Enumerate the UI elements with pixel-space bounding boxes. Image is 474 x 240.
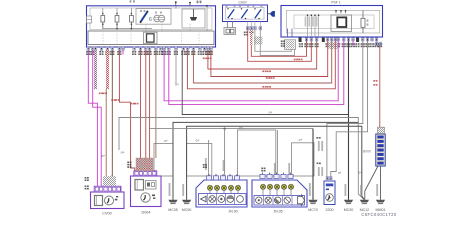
svg-text:C5FC040C1T20: C5FC040C1T20 (361, 212, 397, 217)
wire red N5 (193, 41, 331, 83)
wire red N4 (211, 41, 328, 77)
wire magenta stub (122, 50, 124, 54)
wire CA00 to J4 (228, 22, 233, 28)
node stub above BB00 (175, 1, 177, 6)
switch unit CA00 (223, 5, 268, 22)
resistor ladder B000 (376, 134, 385, 166)
pin row PSF1 (299, 38, 378, 42)
ground MC70 (308, 129, 318, 212)
wire label B-R (373, 80, 377, 86)
pin strip JN1 (206, 174, 239, 180)
connector above B000 (378, 127, 385, 133)
label above BB00 (130, 0, 202, 3)
svg-text:MC50: MC50 (182, 208, 192, 212)
wire gray to fan pin1 (327, 41, 363, 177)
wire red D1 (140, 50, 142, 158)
wire red label a (203, 58, 212, 60)
connector J4 below CA00 (224, 28, 236, 35)
internal wires PSF1 (288, 29, 293, 38)
stubs under CA00 (248, 22, 261, 27)
wire red label c (262, 71, 271, 73)
svg-text:2200: 2200 (326, 208, 334, 212)
shield sleeve S4 (292, 143, 315, 176)
wire magenta M1 (88, 50, 97, 188)
wire gray bus Ga (119, 118, 364, 200)
svg-text:o+: o+ (338, 171, 342, 175)
wire red N1 (251, 30, 306, 57)
svg-text:o+: o+ (175, 83, 179, 87)
wire red label h (266, 77, 275, 79)
wire red D3 (149, 50, 151, 158)
wire magenta tick (352, 41, 354, 46)
harness bundle D004 (127, 158, 153, 171)
wire black to MC30 (182, 50, 348, 114)
labels above JN1 (203, 160, 225, 171)
node stub solenoid (189, 2, 191, 7)
wire labels under CA00 (244, 32, 293, 45)
connector of CV00 (94, 186, 121, 192)
svg-text:o+: o+ (164, 139, 168, 143)
wire red jog to D004 (119, 50, 134, 171)
wire red label d (262, 86, 271, 88)
pins of 2200 (326, 177, 332, 180)
wire gray stub PSF1 (376, 41, 378, 46)
wire magenta M4 (169, 41, 344, 105)
wires into JN2 (276, 130, 278, 174)
node dot on BB00 top (206, 5, 208, 31)
svg-text:MC30: MC30 (344, 208, 354, 212)
svg-text:PSF 1: PSF 1 (331, 1, 341, 5)
svg-text:MC35: MC35 (168, 208, 178, 212)
wire labels under PSF1 (299, 42, 382, 49)
wire red N3 (208, 41, 317, 69)
horn symbol H1 (268, 11, 275, 17)
fuse F4 in PSF1 (361, 11, 368, 34)
shield sleeve S3 (238, 130, 276, 176)
connector stack X9 (281, 40, 296, 50)
fan unit 2200 (324, 181, 335, 205)
svg-text:o+: o+ (358, 171, 362, 175)
pin row B-R (375, 42, 381, 45)
ECU box BB00 outline (87, 6, 216, 47)
connector strip of BB00 (88, 31, 214, 45)
svg-text:CA00: CA00 (239, 0, 247, 4)
wire red label e (99, 93, 107, 95)
wire gray U2 (260, 30, 294, 56)
pin strip JN2 (260, 173, 293, 179)
svg-text:JN.05: JN.05 (273, 209, 282, 213)
solenoid U2 in BB00 (182, 9, 205, 28)
pins under CA00 (246, 27, 261, 30)
ground MC30 (344, 184, 354, 212)
wire drop to JN1 pin (224, 129, 226, 176)
shield sleeve S2 (187, 144, 212, 177)
wire gray bus Gd (150, 128, 313, 130)
internal feed wires PSF1 (305, 14, 320, 37)
svg-text:JN.00: JN.00 (228, 209, 237, 213)
wire B000 to MC12 (365, 166, 378, 200)
wire red B-R (379, 46, 381, 127)
pump D004 box (131, 176, 162, 207)
svg-text:MC70: MC70 (308, 208, 318, 212)
svg-text:o+: o+ (101, 154, 105, 158)
internal wiring BB00 (146, 6, 190, 31)
wire magenta M3 (164, 41, 338, 101)
wire red N6 (187, 41, 335, 89)
labels above CV00 (85, 176, 116, 189)
wire brown to CV00 (111, 50, 114, 188)
wire PSF1 MC30 vertical (348, 41, 350, 200)
wire gray bus Gb (173, 122, 358, 199)
svg-text:D004: D004 (141, 210, 150, 214)
svg-text:6: 6 (149, 17, 152, 23)
wire gray U1 (255, 30, 291, 52)
wire hatched stub1 (94, 50, 96, 89)
shield sleeve S1 (154, 144, 173, 177)
wire gray N5b (175, 50, 177, 84)
svg-text:CV00: CV00 (102, 211, 112, 215)
wires into JN1 (205, 140, 209, 176)
wire gray bus Gc (187, 126, 365, 200)
wire tan D4 (155, 50, 157, 158)
fusebox PSF1 outline (281, 6, 383, 38)
fuses F1 F2 F3 in BB00 (101, 8, 152, 31)
connector block JN1 (196, 180, 247, 207)
wire magenta M2 (93, 50, 102, 188)
ground MM01 (376, 184, 386, 212)
wire red label f (130, 103, 138, 105)
pin row BB00 (87, 47, 212, 50)
svg-text:o+: o+ (121, 151, 125, 155)
wire labels under BB00 (86, 51, 213, 55)
wire red label b (294, 59, 303, 61)
wire red N2 (248, 30, 312, 62)
svg-text:B000: B000 (363, 150, 371, 154)
relay-motor unit U1 in BB00 (136, 9, 171, 25)
svg-text:o+: o+ (299, 138, 303, 142)
ground MC12 (360, 185, 370, 212)
svg-text:o+: o+ (196, 139, 200, 143)
wire red D2 (145, 50, 147, 158)
edge connector tab BB00 (87, 16, 92, 23)
wire B000 to MM01 (380, 166, 382, 200)
svg-text:o+: o+ (269, 111, 273, 115)
label above JN2 (274, 163, 290, 175)
connector block JN2 (252, 180, 307, 207)
wire red label g (111, 99, 119, 101)
label 2V OR (316, 137, 323, 176)
wire hatched stub2 (106, 50, 109, 188)
relay K1 in PSF1 (331, 10, 352, 32)
labels above JN2 (261, 168, 265, 172)
wire gray to fan pin2 (331, 41, 368, 177)
actuator CV00 box (91, 192, 125, 209)
svg-text:o+: o+ (239, 126, 243, 130)
connector of D004 (134, 171, 157, 176)
ground MC35 (168, 183, 178, 212)
junction dot Gd (224, 128, 226, 130)
ground MC50 (182, 184, 192, 212)
